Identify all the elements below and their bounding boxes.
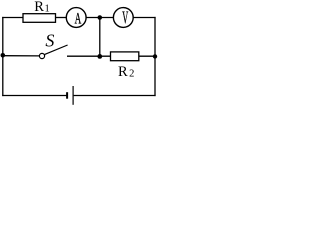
wire R1 to ammeter bbox=[56, 17, 67, 19]
wire top-left horizontal bbox=[2, 17, 23, 19]
switch S lever bbox=[44, 45, 67, 55]
wire R2 to right bbox=[139, 55, 156, 57]
wire voltmeter to right bbox=[133, 17, 156, 19]
node junction dot left bbox=[1, 53, 6, 58]
svg-text:2: 2 bbox=[129, 68, 134, 79]
svg-text:S: S bbox=[45, 31, 54, 51]
wire bottom left bbox=[2, 95, 66, 97]
battery negative plate bbox=[66, 92, 68, 99]
svg-text:1: 1 bbox=[45, 4, 50, 15]
wire left to switch bbox=[3, 55, 40, 57]
battery positive plate bbox=[72, 86, 74, 105]
svg-text:A: A bbox=[75, 10, 82, 27]
node junction dot middle bbox=[97, 54, 102, 59]
wire left vertical bbox=[2, 17, 4, 96]
svg-text:V: V bbox=[122, 8, 128, 27]
voltmeter V bbox=[113, 8, 133, 28]
node junction dot top bbox=[98, 15, 103, 20]
wire switch to node bbox=[67, 55, 111, 57]
switch S pivot bbox=[39, 53, 44, 58]
wire right vertical bbox=[154, 17, 156, 96]
wire ammeter to node bbox=[86, 17, 114, 19]
node junction dot right bbox=[153, 54, 157, 58]
wire bottom right bbox=[74, 95, 156, 97]
wire node branch vertical bbox=[99, 18, 101, 57]
resistor R1 bbox=[23, 14, 56, 23]
resistor R2 bbox=[111, 52, 139, 61]
svg-text:R: R bbox=[34, 0, 44, 15]
svg-text:R: R bbox=[118, 64, 128, 80]
ammeter A bbox=[66, 8, 86, 28]
